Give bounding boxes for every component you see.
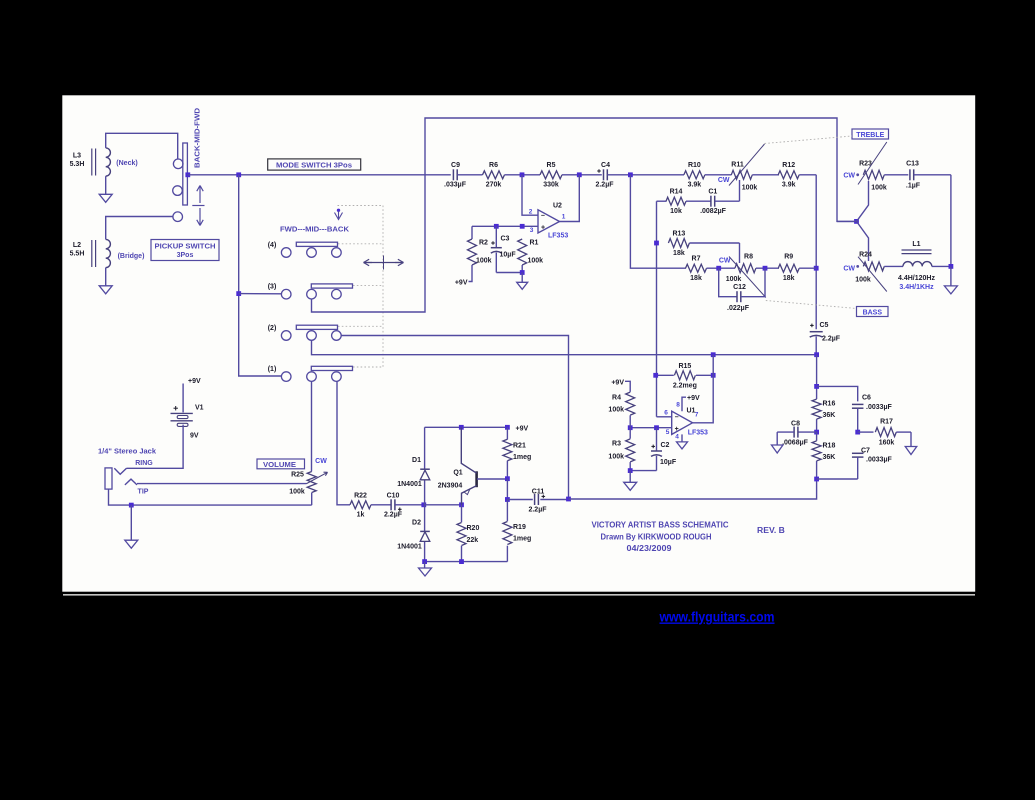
wire battery minus to ring: [127, 425, 184, 469]
capacitor C1 .0082uF: [710, 196, 712, 207]
thin white shadow line under page: [63, 594, 975, 595]
mode switch row (4) pole circle: [281, 248, 291, 258]
wire L1 node to ground: [950, 266, 952, 286]
potentiometer R25 100k volume: [307, 472, 316, 493]
svg-text:(Neck): (Neck): [116, 160, 137, 167]
wire Y node branches: [837, 220, 857, 222]
svg-text:C10: C10: [387, 492, 400, 499]
diode D2 1N4001: [420, 532, 430, 542]
node rail ground junction: [422, 559, 427, 564]
battery V1: [171, 412, 193, 414]
svg-text:6: 6: [664, 410, 668, 417]
node C6 C7 R17 junction: [855, 430, 860, 435]
svg-text:L2: L2: [73, 242, 81, 249]
svg-text:U1: U1: [687, 408, 696, 415]
svg-text:2.2µF: 2.2µF: [822, 336, 841, 343]
inductor L3 neck pickup: [106, 148, 111, 176]
wire L3 bottom to ground: [105, 176, 107, 194]
svg-text:2.2µF: 2.2µF: [528, 506, 547, 513]
svg-text:+9V: +9V: [611, 379, 624, 386]
ground below L1 node: [944, 286, 957, 294]
wire R17 to ground: [910, 432, 912, 446]
svg-text:RING: RING: [135, 460, 153, 467]
svg-text:.0068µF: .0068µF: [782, 439, 809, 446]
resistor R13 18k: [668, 239, 689, 248]
node R3 bottom junction: [628, 468, 633, 473]
svg-text:R2: R2: [479, 240, 488, 247]
svg-text:MODE SWITCH 3Pos: MODE SWITCH 3Pos: [276, 163, 352, 170]
resistor R1 100k: [518, 239, 527, 265]
resistor R2 100k: [471, 226, 473, 239]
ground below L2: [99, 286, 112, 294]
resistor R14 10k: [657, 200, 667, 202]
svg-text:Q1: Q1: [453, 470, 462, 477]
svg-text:REV. B: REV. B: [757, 525, 785, 535]
svg-text:R7: R7: [692, 255, 701, 262]
svg-text:U2: U2: [553, 203, 562, 210]
svg-text:D2: D2: [412, 519, 421, 526]
wire U1 inverting input from bus: [657, 416, 672, 418]
node pickup switch output junction: [185, 172, 190, 177]
svg-text:C9: C9: [451, 162, 460, 169]
svg-text:9V: 9V: [190, 433, 199, 440]
wire U1 non-inverting input rail: [630, 427, 672, 429]
svg-text:C2: C2: [661, 442, 670, 449]
mode switch pointer arrow: [337, 209, 340, 212]
resistor R16 36K: [812, 399, 821, 419]
svg-text:5: 5: [666, 429, 670, 436]
capacitor C6 .0033uF: [852, 403, 864, 405]
svg-text:CW: CW: [843, 266, 855, 273]
wire base node down to C11 node: [506, 479, 508, 500]
inductor L2 bridge pickup: [106, 239, 111, 267]
svg-text:2.2µF: 2.2µF: [595, 181, 614, 188]
svg-text:100k: 100k: [476, 258, 492, 265]
svg-text:36K: 36K: [823, 454, 836, 461]
wire R25 bottom to ground rail: [311, 493, 313, 506]
wire U2 output feedback: [560, 175, 580, 222]
resistor R10 3.9k: [684, 171, 705, 179]
svg-text:R21: R21: [513, 442, 526, 449]
jack sleeve: [105, 468, 112, 489]
node R15 right junction: [711, 373, 716, 378]
svg-text:+: +: [675, 426, 679, 433]
svg-text:R5: R5: [547, 162, 556, 169]
svg-text:C1: C1: [708, 188, 717, 195]
node bottom rail junction: [520, 270, 525, 275]
svg-text:3: 3: [530, 227, 534, 234]
capacitor C4 2.2uF: [603, 169, 605, 180]
mode switch row (3) wiper bar: [311, 284, 352, 288]
capacitor C12 .022uF bridge: [719, 268, 737, 297]
wire R16 top branch to C6: [817, 386, 858, 401]
wire C4 node down to R7 row: [630, 175, 686, 268]
svg-text:1meg: 1meg: [513, 535, 531, 542]
ground below R3: [624, 482, 637, 490]
svg-text:100k: 100k: [742, 185, 758, 192]
svg-text:VICTORY ARTIST BASS SCHEMATIC: VICTORY ARTIST BASS SCHEMATIC: [592, 519, 729, 529]
capacitor C9 .033uF: [452, 169, 454, 180]
node mid rail R15 junction: [711, 352, 716, 357]
node R7-R8 junction: [716, 266, 721, 271]
node C3 top junction: [494, 224, 499, 229]
svg-text:3Pos: 3Pos: [177, 252, 194, 259]
box TREBLE: [852, 129, 889, 139]
svg-text:LF353: LF353: [548, 233, 568, 240]
mode switch row (1) wiper bar: [311, 366, 352, 370]
svg-text:R9: R9: [784, 254, 793, 261]
svg-text:–: –: [541, 213, 545, 220]
svg-text:R4: R4: [612, 394, 621, 401]
svg-text:.0082µF: .0082µF: [700, 208, 727, 215]
svg-text:330k: 330k: [543, 181, 559, 188]
svg-text:22k: 22k: [467, 537, 479, 544]
resistor R3 100k: [629, 428, 631, 439]
node R16 top junction: [814, 384, 819, 389]
svg-text:36K: 36K: [823, 412, 836, 419]
node R9 row junction: [814, 266, 819, 271]
svg-text:C6: C6: [862, 394, 871, 401]
svg-text:100k: 100k: [855, 277, 871, 284]
svg-text:www.flyguitars.com: www.flyguitars.com: [659, 610, 775, 625]
svg-text:5.3H: 5.3H: [70, 161, 85, 168]
svg-text:R1: R1: [530, 240, 539, 247]
svg-text:160k: 160k: [879, 439, 895, 446]
ground below L3: [99, 194, 112, 202]
svg-text:10µF: 10µF: [660, 459, 677, 466]
wire C5 node down to R16: [816, 355, 818, 399]
svg-text:C13: C13: [906, 161, 919, 168]
node rail R21 junction: [505, 425, 510, 430]
R25 wiper arrow: [307, 472, 328, 483]
svg-text:3.9k: 3.9k: [782, 182, 796, 189]
svg-text:270k: 270k: [486, 181, 502, 188]
svg-text:+9V: +9V: [687, 395, 700, 402]
svg-text:R24: R24: [859, 252, 872, 259]
wire L3 top to switch contact 1: [106, 133, 178, 159]
svg-text:2: 2: [529, 209, 533, 216]
mode switch row (2) wiper bar: [296, 325, 337, 329]
node C4 output junction: [628, 172, 633, 177]
svg-text:1N4001: 1N4001: [397, 481, 422, 488]
wire to ground U2 bias: [521, 273, 523, 283]
pickup switch contact circle 2: [173, 186, 183, 196]
mode switch row (3) throw circles: [307, 289, 317, 299]
inductor L1: [903, 262, 932, 267]
svg-text:1N4001: 1N4001: [397, 543, 422, 550]
svg-text:(4): (4): [268, 242, 277, 249]
node C11 branch junction: [505, 497, 510, 502]
resistor R9 18k: [778, 264, 799, 272]
ground below U1: [677, 442, 688, 449]
svg-text:3.4H/1KHz: 3.4H/1KHz: [899, 284, 934, 291]
ground left of C8: [771, 445, 783, 453]
box VOLUME: [257, 459, 305, 469]
svg-text:V1: V1: [195, 405, 204, 412]
svg-text:100k: 100k: [608, 453, 624, 460]
svg-text:4: 4: [675, 434, 679, 441]
svg-text:.022µF: .022µF: [727, 305, 750, 312]
svg-text:C12: C12: [733, 284, 746, 291]
capacitor C13 .1uF: [909, 169, 911, 180]
wire row1 left throw down to volume pot: [311, 381, 313, 471]
capacitor C5 2.2uF: [810, 331, 823, 333]
svg-text:18k: 18k: [673, 250, 685, 257]
wire buffer ground rail: [425, 561, 508, 563]
svg-text:–: –: [675, 414, 679, 421]
wire junction to ground: [130, 505, 132, 540]
svg-text:FWD---MID---BACK: FWD---MID---BACK: [280, 227, 349, 234]
svg-text:R11: R11: [731, 162, 744, 169]
svg-text:TIP: TIP: [138, 488, 149, 495]
svg-text:1k: 1k: [357, 512, 365, 519]
svg-text:BASS: BASS: [863, 310, 883, 317]
wire C8 to ground: [776, 432, 778, 445]
mode switch row (3) pole circle: [281, 289, 291, 299]
svg-text:.1µF: .1µF: [906, 183, 921, 190]
svg-text:100k: 100k: [528, 258, 544, 265]
svg-text:5.5H: 5.5H: [70, 251, 85, 258]
wire C3 R1 bottom rail: [496, 272, 522, 274]
node R18 bottom junction: [814, 477, 819, 482]
pickup switch motion double arrow: [199, 186, 201, 204]
node R5-C4 junction: [577, 172, 582, 177]
svg-text:2N3904: 2N3904: [438, 482, 463, 489]
diode D1 1N4001: [420, 470, 430, 480]
jack ring contact: [114, 468, 126, 474]
svg-text:C4: C4: [601, 162, 610, 169]
node C2 top junction: [654, 425, 659, 430]
svg-text:2.2meg: 2.2meg: [673, 382, 697, 389]
svg-text:C8: C8: [791, 420, 800, 427]
svg-text:+: +: [541, 225, 545, 232]
svg-text:10k: 10k: [670, 208, 682, 215]
dotted gang line bass: [766, 301, 857, 309]
wire row3 to top feed line: [312, 118, 857, 312]
capacitor C11 2.2uF: [507, 499, 532, 501]
svg-text:(3): (3): [268, 284, 277, 291]
mode switch row (2) throw circles: [307, 331, 317, 341]
svg-text:L1: L1: [912, 241, 920, 248]
node C5 bottom junction on mid rail: [814, 352, 819, 357]
svg-text:R13: R13: [672, 230, 685, 237]
resistor R20 22k: [461, 505, 463, 523]
wire bus to row3 contact: [239, 293, 282, 295]
wire R13 down to R8 wiper: [739, 243, 741, 263]
resistor R4 100k: [625, 381, 630, 392]
resistor R6 270k: [483, 171, 505, 179]
pickup switch lever bar: [183, 143, 188, 205]
wire C13 down to L1 node: [950, 175, 952, 267]
wire +9V rail of buffer: [425, 426, 508, 428]
wire C1 up to R11 wiper: [739, 180, 741, 201]
ground below R1: [517, 282, 528, 289]
svg-text:BACK-MID-FWD: BACK-MID-FWD: [195, 108, 202, 168]
node tone wiper Y junction: [854, 219, 859, 224]
svg-text:R15: R15: [678, 363, 691, 370]
svg-text:R3: R3: [612, 440, 621, 447]
svg-text:Drawn By KIRKWOOD ROUGH: Drawn By KIRKWOOD ROUGH: [601, 531, 712, 541]
node rail collector junction: [459, 425, 464, 430]
box MODE SWITCH 3Pos: [268, 159, 361, 170]
node main bus junction: [236, 172, 241, 177]
node filter mid junction: [814, 430, 819, 435]
capacitor C2 10uF: [656, 428, 658, 451]
svg-text:CW: CW: [719, 257, 731, 264]
svg-text:CW: CW: [718, 177, 730, 184]
svg-text:1/4" Stereo Jack: 1/4" Stereo Jack: [98, 449, 156, 456]
transistor Q1 2N3904: [475, 471, 478, 487]
box PICKUP SWITCH 3Pos: [151, 240, 219, 261]
node R15 left junction: [653, 373, 658, 378]
wire R12 down to C5: [815, 175, 817, 329]
mode switch row (4) wiper bar: [296, 242, 337, 246]
svg-text:C5: C5: [820, 322, 829, 329]
op-amp U2 LF353: [538, 210, 560, 233]
wire to ground U1 bias: [629, 471, 631, 483]
wire R3 C2 bottom rail: [630, 470, 656, 472]
resistor R12 3.9k: [778, 171, 799, 179]
svg-text:100k: 100k: [726, 276, 742, 283]
svg-text:4.4H/120Hz: 4.4H/120Hz: [898, 275, 935, 282]
wire bus down to mode switch rows: [239, 175, 282, 376]
ground below buffer rail: [419, 568, 432, 576]
svg-text:(1): (1): [268, 366, 277, 373]
svg-text:CW: CW: [315, 458, 327, 465]
op-amp U1 LF353: [672, 411, 693, 434]
wire rail to ground: [424, 562, 426, 568]
capacitor C3 10uF: [495, 226, 497, 247]
node base junction: [505, 476, 510, 481]
svg-text:8: 8: [676, 402, 680, 409]
svg-text:C7: C7: [861, 447, 870, 454]
potentiometer R24 100k bass: [863, 262, 884, 271]
potentiometer R11 100k: [731, 170, 752, 179]
resistor R22 1k: [350, 501, 371, 509]
mode switch row (2) pole circle: [281, 331, 291, 341]
svg-text:+9V: +9V: [455, 279, 468, 286]
wire U1 pin 8 to +9V: [682, 397, 686, 411]
svg-text:R12: R12: [782, 162, 795, 169]
capacitor C10 2.2uF: [371, 504, 391, 506]
svg-text:R19: R19: [513, 524, 526, 531]
svg-text:100k: 100k: [608, 406, 624, 413]
node C11 output junction: [566, 497, 571, 502]
wire row1 right throw down to R22: [337, 381, 350, 504]
wire C10 node to emitter: [424, 504, 462, 506]
svg-text:R25: R25: [291, 472, 304, 479]
ground below jack: [125, 540, 138, 548]
svg-text:100k: 100k: [289, 489, 305, 496]
svg-text:(2): (2): [268, 325, 277, 332]
resistor R7 18k: [686, 264, 707, 272]
svg-text:+9V: +9V: [516, 425, 529, 432]
wire diode string: [424, 427, 426, 469]
wire row2 right throw to C11 node: [341, 336, 568, 500]
svg-text:TREBLE: TREBLE: [856, 132, 884, 139]
node bus row3 junction: [236, 291, 241, 296]
wire tip to volume wiper: [137, 483, 307, 485]
svg-text:18k: 18k: [783, 275, 795, 282]
svg-text:R8: R8: [744, 254, 753, 261]
node jack ground junction: [129, 503, 134, 508]
node emitter junction: [459, 502, 464, 507]
svg-text:+9V: +9V: [188, 378, 201, 385]
wire battery plus to +9V: [182, 384, 184, 413]
wire R14 bus down: [656, 201, 658, 417]
svg-text:R18: R18: [823, 442, 836, 449]
svg-text:VOLUME: VOLUME: [263, 462, 296, 469]
svg-text:1: 1: [562, 214, 566, 221]
node C10 output junction: [421, 502, 426, 507]
node R4 R3 junction: [628, 425, 633, 430]
svg-text:C11: C11: [532, 488, 545, 495]
svg-text:R6: R6: [489, 162, 498, 169]
pickup switch contact circle 1: [173, 159, 183, 169]
svg-text:.0033µF: .0033µF: [866, 456, 893, 463]
wire jack sleeve to ground rail: [109, 489, 312, 505]
wire U1 pin 4 to ground: [681, 434, 683, 442]
resistor R21 1meg: [506, 427, 508, 439]
svg-text:CW: CW: [843, 173, 855, 180]
node L1 C13 junction: [949, 264, 954, 269]
potentiometer R8 100k: [735, 264, 756, 273]
svg-text:100k: 100k: [871, 185, 887, 192]
node R1 top junction: [520, 224, 525, 229]
node R8-R9 junction: [763, 266, 768, 271]
svg-text:2.2µF: 2.2µF: [384, 512, 403, 519]
white schematic page: [62, 95, 977, 593]
resistor R17 160k: [858, 431, 874, 433]
node R13 junction: [654, 241, 659, 246]
wire long output rail: [569, 479, 817, 499]
wire C7 bottom to R18 bottom: [817, 478, 858, 480]
resistor R19 1meg: [506, 500, 508, 522]
node R6-R5 junction: [520, 172, 525, 177]
mode switch motion double arrow: [364, 262, 373, 264]
box BASS: [857, 307, 889, 317]
wire L2 top to switch contact 3: [106, 217, 173, 240]
svg-text:10µF: 10µF: [500, 252, 517, 259]
dotted gang frame of mode switch: [338, 205, 384, 207]
wire row2 left throw to long mid rail: [312, 340, 817, 354]
svg-text:PICKUP SWITCH: PICKUP SWITCH: [155, 243, 216, 250]
capacitor C8 .0068uF: [798, 431, 817, 433]
resistor R15 2.2meg feedback: [656, 374, 674, 376]
jack tip contact: [125, 479, 137, 485]
dotted gang line treble: [765, 136, 853, 144]
svg-text:LF353: LF353: [688, 430, 708, 437]
svg-text:(Bridge): (Bridge): [118, 253, 145, 260]
wire main signal from pickup switch to C9: [188, 174, 451, 176]
svg-text:1meg: 1meg: [513, 454, 531, 461]
ground right of R17: [905, 447, 917, 455]
svg-text:L3: L3: [73, 153, 81, 160]
svg-text:3.9k: 3.9k: [688, 182, 702, 189]
svg-text:R17: R17: [880, 418, 893, 425]
svg-text:R14: R14: [670, 188, 683, 195]
mode switch row (4) throw circles: [307, 248, 317, 258]
svg-text:18k: 18k: [690, 275, 702, 282]
mode switch row (1) pole circle: [281, 372, 291, 382]
svg-text:.0033µF: .0033µF: [866, 404, 893, 411]
svg-text:R22: R22: [354, 492, 367, 499]
wire R15 right to mid rail and output: [692, 355, 713, 423]
svg-text:04/23/2009: 04/23/2009: [627, 543, 672, 553]
resistor R5 330k: [540, 171, 562, 179]
svg-text:C3: C3: [501, 236, 510, 243]
svg-text:.033µF: .033µF: [444, 181, 467, 188]
